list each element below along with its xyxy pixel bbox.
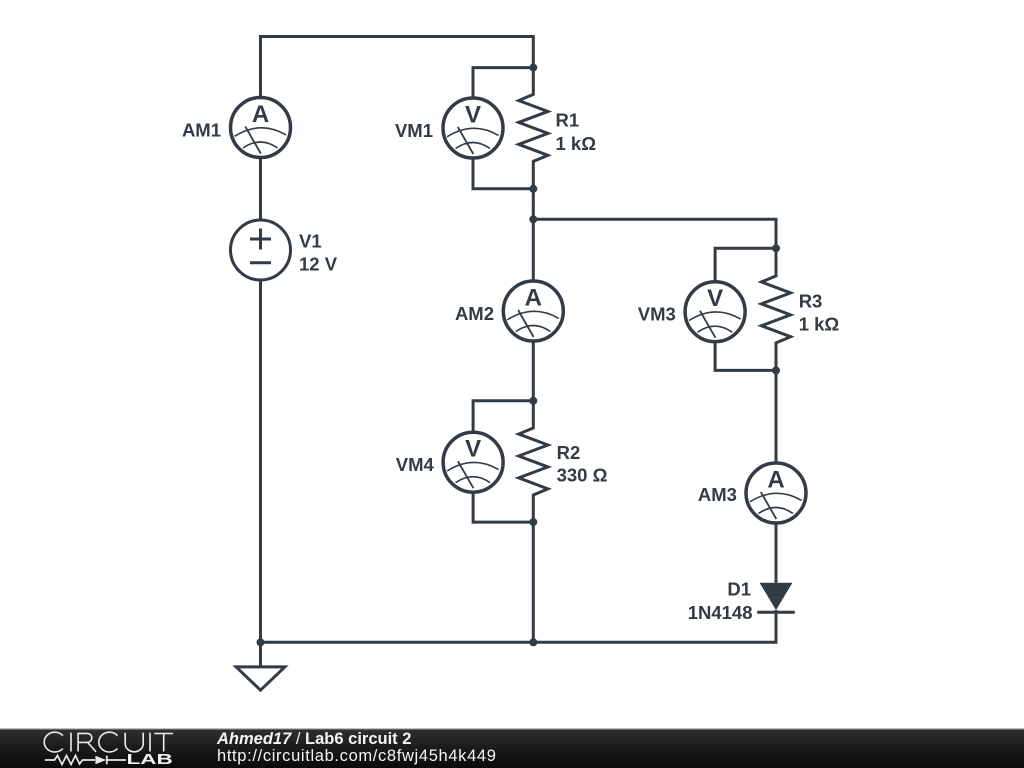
- logo CIRCUIT letter C1: [44, 732, 63, 752]
- ground: [236, 667, 285, 690]
- node junction R1 top: [529, 64, 537, 72]
- node junction R3 top: [772, 244, 780, 252]
- svg-text:R3: R3: [799, 290, 823, 311]
- svg-text:AM3: AM3: [698, 484, 737, 505]
- logo letter C2: [99, 732, 118, 752]
- wire V1 bottom to bottom rail: [259, 278, 262, 642]
- svg-text:V: V: [707, 285, 723, 312]
- voltmeter VM3: [685, 282, 745, 342]
- node junction bottom rail left: [257, 638, 265, 646]
- logo squiggle diode: [95, 756, 106, 765]
- svg-text:1 kΩ: 1 kΩ: [556, 133, 597, 154]
- resistor R1: [519, 68, 548, 189]
- ammeter AM3: [746, 463, 806, 523]
- svg-text:LAB: LAB: [127, 752, 173, 768]
- svg-text:1N4148: 1N4148: [688, 602, 753, 623]
- svg-text:VM1: VM1: [395, 120, 433, 141]
- wire VM1 top stub: [473, 68, 533, 100]
- svg-text:A: A: [767, 467, 784, 494]
- node junction R2 bottom: [529, 518, 537, 526]
- node junction R1 bottom: [529, 185, 537, 193]
- svg-text:V: V: [465, 102, 481, 129]
- resistor R3: [761, 248, 790, 370]
- svg-text:AM1: AM1: [182, 120, 221, 141]
- node junction branch: [529, 215, 537, 223]
- wire R3 bottom to AM3 top: [775, 370, 778, 465]
- footer bar: [0, 728, 1024, 729]
- wire R2 bottom to bottom rail: [532, 522, 535, 642]
- logo letter I2: [149, 733, 151, 752]
- wire AM1 bottom to V1 top: [259, 156, 262, 222]
- svg-text:V: V: [465, 436, 481, 463]
- svg-text:R1: R1: [556, 109, 580, 130]
- wire VM4 bottom stub: [473, 490, 533, 522]
- wire D1 to bottom rail and left to ground: [261, 610, 777, 667]
- logo letter R: [78, 733, 96, 752]
- wire VM1 bottom stub: [473, 156, 533, 189]
- ammeter AM2: [503, 281, 563, 341]
- svg-text:http://circuitlab.com/c8fwj45h: http://circuitlab.com/c8fwj45h4k449: [217, 747, 497, 765]
- voltmeter VM4: [443, 432, 503, 492]
- svg-text:R2: R2: [557, 442, 581, 463]
- node junction bottom rail mid: [529, 638, 537, 646]
- svg-text:VM4: VM4: [396, 454, 435, 475]
- voltage source V1: [231, 220, 291, 280]
- svg-text:VM3: VM3: [638, 304, 676, 325]
- svg-text:Ahmed17 / Lab6 circuit 2: Ahmed17 / Lab6 circuit 2: [216, 730, 411, 748]
- resistor R2: [519, 401, 548, 522]
- logo letter I1: [70, 733, 72, 752]
- wire VM3 top stub: [715, 248, 776, 284]
- svg-text:D1: D1: [727, 579, 751, 600]
- svg-text:AM2: AM2: [455, 303, 494, 324]
- svg-text:A: A: [252, 101, 269, 128]
- node junction R3 bottom: [772, 366, 780, 374]
- svg-text:330 Ω: 330 Ω: [557, 465, 608, 486]
- logo letter T: [154, 734, 173, 752]
- wire AM3 bottom to D1: [775, 521, 778, 583]
- wire node R1 bottom to AM2 top: [532, 189, 535, 283]
- svg-text:12 V: 12 V: [299, 253, 338, 274]
- voltmeter VM1: [443, 98, 503, 158]
- wire top loop AM1 to R1: [261, 37, 534, 101]
- logo letter U: [125, 733, 143, 752]
- logo squiggle wire and resistor: [45, 756, 126, 765]
- svg-text:1 kΩ: 1 kΩ: [799, 314, 840, 335]
- wire AM2 bottom to R2 top: [532, 339, 535, 401]
- svg-text:V1: V1: [299, 230, 322, 251]
- wire VM4 top stub: [473, 401, 533, 435]
- wire branch right to R3: [533, 219, 776, 248]
- wire VM3 bottom stub: [715, 340, 776, 371]
- node junction R2 top: [529, 397, 537, 405]
- diode D1: [757, 583, 795, 613]
- ammeter AM1: [231, 98, 291, 158]
- svg-text:A: A: [525, 285, 542, 312]
